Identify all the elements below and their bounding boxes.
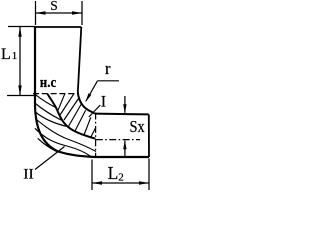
Sx dimension lower arrow (pointing up at dash-dot line) bbox=[124, 141, 126, 157]
svg-text:II: II bbox=[23, 166, 34, 182]
svg-text:Sx: Sx bbox=[130, 117, 146, 136]
zone I radial hatch lines bbox=[58, 93, 96, 138]
top edge of vertical leg (thick part) bbox=[34, 26, 81, 28]
right edge of vertical leg bbox=[78, 27, 82, 93]
L2 dimension line with arrows bbox=[92, 182, 149, 184]
L2 extension lines bbox=[91, 160, 93, 191]
right edge of horizontal leg bbox=[148, 114, 150, 157]
svg-text:r: r bbox=[105, 59, 111, 78]
zone II layer hatch curves bbox=[35, 95, 96, 157]
S dimension line with arrows bbox=[36, 12, 83, 14]
vertical dash-dot bend-zone boundary bbox=[95, 113, 97, 158]
L1 top extension (top edge extended) bbox=[8, 26, 35, 28]
top edge of horizontal leg bbox=[95, 113, 149, 116]
neutral line thick curve through bend bbox=[48, 94, 96, 139]
inner bend radius arc bbox=[78, 93, 95, 114]
svg-text:н.с: н.с bbox=[40, 75, 57, 91]
svg-text:S: S bbox=[50, 0, 58, 13]
svg-text:I: I bbox=[101, 94, 106, 111]
S dimension extension lines bbox=[35, 1, 37, 25]
L1 dimension line with arrows bbox=[19, 27, 21, 95]
dash-dot line in horizontal leg bbox=[96, 139, 140, 141]
L1 bottom extension bbox=[7, 95, 34, 97]
dashed neutral-layer line across vertical leg bbox=[33, 93, 78, 95]
svg-text:2: 2 bbox=[118, 172, 124, 184]
svg-text:L: L bbox=[108, 163, 119, 183]
svg-text:L: L bbox=[1, 46, 11, 63]
Sx dimension upper arrow (pointing down at top edge) bbox=[124, 96, 126, 113]
svg-text:1: 1 bbox=[12, 50, 17, 62]
outer boundary: left edge of vertical leg + outer bend curve + bottom edge of horizontal leg bbox=[35, 27, 149, 158]
